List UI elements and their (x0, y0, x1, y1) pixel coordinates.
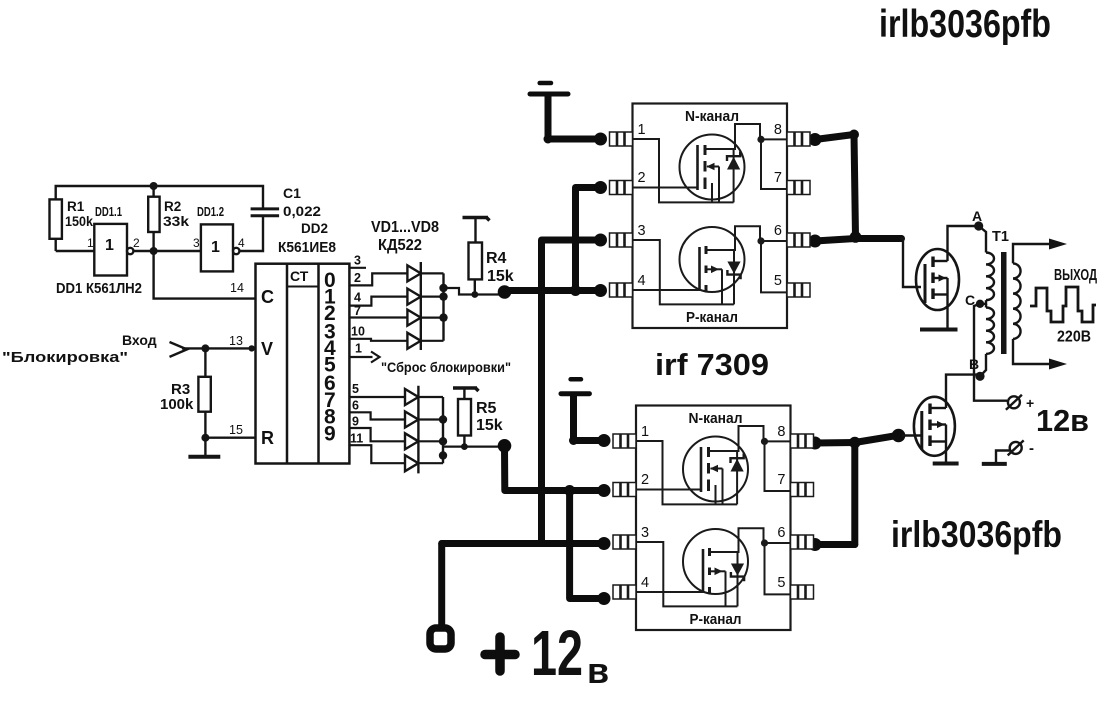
wire gnd1 to U1 pin1 (548, 97, 601, 140)
node R4 out (498, 285, 512, 299)
P-ch gate bar (698, 247, 701, 291)
label +12v handwritten plus (485, 637, 515, 671)
N-ch body diode (727, 149, 740, 202)
svg-text:15k: 15k (476, 417, 503, 434)
pin 6 stub out7 wire (349, 412, 405, 419)
svg-text:К561ИЕ8: К561ИЕ8 (278, 239, 336, 256)
svg-text:R: R (261, 428, 274, 448)
node U2 pin3 (598, 537, 611, 550)
pin 7 stub out3 wire (349, 316, 407, 318)
svg-text:5: 5 (352, 382, 359, 396)
wires cathodes to bus bottom (418, 397, 443, 463)
P-ch body diode (727, 250, 740, 304)
ground bar Q2 (933, 462, 959, 466)
cathode bar VD5-VD8 (417, 386, 419, 474)
svg-text:3: 3 (193, 236, 200, 250)
svg-text:"Блокировка": "Блокировка" (2, 350, 128, 366)
svg-text:DD1.2: DD1.2 (197, 204, 224, 219)
pad pin8 (787, 132, 810, 146)
svg-text:СТ: СТ (290, 268, 309, 284)
wire U1 pin6 to Q1 gate (815, 239, 902, 242)
terminal minus (1008, 440, 1024, 455)
svg-text:2: 2 (354, 271, 361, 285)
node drain corner top (849, 130, 859, 140)
node input blokirovka (201, 344, 209, 352)
svg-text:1: 1 (355, 342, 362, 356)
svg-text:15k: 15k (487, 268, 514, 285)
node Q2 gate (892, 429, 906, 443)
svg-text:КД522: КД522 (378, 237, 422, 254)
wire drain tie bottom (851, 443, 858, 545)
node B (975, 372, 984, 381)
pin 4 stub out2 wire (349, 297, 407, 306)
wire C tap to plus terminal (974, 304, 1007, 401)
output arrow bottom (1049, 359, 1067, 370)
svg-text:7: 7 (774, 170, 782, 186)
node U2 pin6 (809, 538, 822, 551)
ground bar top (530, 83, 568, 94)
svg-text:1: 1 (211, 239, 220, 256)
resistor R4 (469, 218, 483, 295)
node R5 stem (461, 443, 468, 450)
wire bus to R5 node (443, 446, 501, 448)
transformer core (1001, 252, 1007, 354)
svg-text:Т1: Т1 (992, 229, 1009, 245)
diode VD4 (407, 333, 420, 349)
node C tap (976, 300, 984, 308)
svg-text:33k: 33k (163, 214, 190, 229)
node R3 bottom (201, 434, 209, 442)
counter DD2 K561IE8 box (256, 264, 350, 464)
node V pin edge (249, 345, 255, 351)
svg-text:150k: 150k (65, 214, 93, 229)
op-amp inverter DD1.2 (201, 224, 240, 271)
pad pin4 (610, 283, 633, 297)
wire U2 pin8 drain (815, 439, 855, 447)
svg-text:"Сброс блокировки": "Сброс блокировки" (381, 359, 511, 375)
node gate tie bottom (564, 485, 575, 496)
svg-text:irlb3036pfb: irlb3036pfb (879, 3, 1051, 46)
wire U1 pin2 gate tie (576, 188, 601, 291)
diode VD8 (405, 455, 418, 471)
N-ch drain path to pins 8 7 (705, 124, 787, 149)
pad pin1 (610, 132, 633, 146)
pin 10 stub out4 wire (349, 339, 407, 341)
svg-text:B: B (969, 356, 979, 372)
node R4 stem (471, 291, 478, 298)
wire tie to U2 pin6 (815, 541, 855, 548)
svg-text:4: 4 (238, 236, 245, 250)
waveform meander (1030, 287, 1096, 322)
wire R4 node to U1 pin4 (505, 287, 601, 294)
node R5 out (498, 439, 512, 453)
node U2 pin1 (598, 434, 611, 447)
P-ch gate wire pin4 (633, 289, 700, 291)
pin 3 stub out0 (349, 267, 366, 269)
svg-text:8: 8 (774, 122, 782, 138)
node gnd2 corner (569, 436, 578, 445)
ground bar Q1 (920, 328, 958, 332)
node N drain (757, 136, 764, 143)
power rail bar R5 (453, 388, 479, 391)
svg-text:220В: 220В (1057, 329, 1091, 346)
node gate tie top (570, 285, 581, 296)
svg-text:13: 13 (229, 334, 243, 348)
node U1 pin1 (594, 133, 607, 146)
node U1 pin6 (809, 235, 822, 248)
node osc mid (150, 247, 158, 255)
node bus top b (439, 292, 447, 300)
wire Q2 gate thin (902, 434, 922, 436)
svg-text:С: С (965, 292, 975, 308)
svg-text:N-канал: N-канал (685, 108, 739, 125)
wire clock to DD2 pin14 (154, 251, 256, 299)
node U2 pin8 (809, 437, 822, 450)
pad pin7 (787, 181, 810, 195)
node A (974, 221, 983, 230)
pin 5 stub out6 wire (349, 396, 405, 398)
pin 9 stub out8 wire (349, 428, 405, 441)
N-ch source path pin1 (633, 139, 734, 202)
node U1 pin8 (809, 133, 822, 146)
wire bus to R4 node (444, 288, 502, 295)
N-ch channel segments (704, 145, 707, 189)
svg-text:11: 11 (350, 432, 363, 446)
transistor P-ch circle (680, 227, 745, 292)
resistor R2 (148, 186, 159, 251)
node bus bot a (439, 415, 447, 423)
node U2 pin2 (598, 484, 611, 497)
svg-text:C: C (261, 287, 274, 307)
svg-text:1: 1 (105, 237, 114, 254)
ground bar mid (561, 379, 589, 393)
node U1 pin3 (594, 234, 607, 247)
wire U1 pin8 drain (815, 135, 856, 238)
terminal plus (1006, 395, 1022, 410)
svg-text:DD1.1: DD1.1 (95, 204, 122, 219)
svg-text:Р-канал: Р-канал (686, 309, 738, 326)
svg-text:+: + (1026, 395, 1034, 411)
svg-text:-: - (1029, 440, 1034, 457)
svg-text:9: 9 (324, 423, 336, 446)
wire minus terminal to ground (996, 451, 1010, 463)
svg-text:14: 14 (230, 281, 244, 295)
op-amp inverter DD1.1 (94, 224, 133, 276)
svg-text:irlb3036pfb: irlb3036pfb (891, 514, 1062, 555)
svg-text:0,022: 0,022 (283, 203, 321, 219)
svg-text:9: 9 (352, 415, 359, 429)
pad pin5 (787, 283, 810, 297)
svg-text:в: в (587, 650, 609, 691)
ground bar minus (982, 462, 1007, 466)
transistor Q2 irlb3036 (914, 397, 955, 456)
bus VD5-VD8 (442, 397, 444, 463)
svg-text:ВЫХОД: ВЫХОД (1054, 267, 1097, 284)
node U1 pin4 (594, 284, 607, 297)
node gnd1 corner (544, 135, 553, 144)
wire R pin15 (205, 437, 255, 439)
node U1 pin2 (594, 181, 607, 194)
svg-text:1: 1 (87, 236, 94, 250)
wire DD1.2 out to C1 (239, 216, 263, 251)
wire Q1 drain to node A (948, 226, 979, 261)
svg-text:4: 4 (638, 273, 646, 289)
resistor R5 (458, 388, 471, 447)
svg-text:2: 2 (638, 170, 646, 186)
node bus top a (439, 284, 447, 292)
pad pin3 (610, 233, 633, 247)
P-ch source path pin3 (633, 240, 734, 304)
diode VD3 (407, 310, 420, 326)
svg-text:R4: R4 (486, 250, 507, 267)
wires cathodes to bus top (421, 273, 444, 340)
bus VD1-VD4 (442, 273, 444, 340)
output arrow top (1049, 239, 1067, 250)
wire tie to Q2 gate (855, 436, 897, 443)
svg-text:DD1 К561ЛН2: DD1 К561ЛН2 (56, 280, 142, 297)
transformer T1 primary upper (979, 226, 994, 300)
svg-text:4: 4 (354, 291, 361, 305)
transistor N-ch circle (680, 135, 745, 200)
svg-text:A: A (972, 208, 982, 224)
pin 2 stub out1 wire (349, 273, 407, 285)
diode VD5 (405, 389, 418, 405)
N-ch gate bar (696, 145, 699, 190)
svg-text:10: 10 (351, 325, 365, 339)
wire Q1 gate thin (900, 239, 921, 288)
node bus bot b (439, 437, 447, 445)
N-ch body arrow (707, 163, 720, 203)
svg-text:6: 6 (774, 223, 782, 239)
pin 11 stub out9 wire (349, 445, 405, 463)
svg-text:2: 2 (133, 236, 140, 250)
svg-text:C1: C1 (283, 185, 301, 201)
svg-text:VD1...VD8: VD1...VD8 (371, 219, 439, 236)
P-ch channel segments (705, 246, 708, 292)
svg-text:12в: 12в (1036, 403, 1089, 438)
diode VD7 (405, 433, 418, 449)
svg-text:3: 3 (638, 223, 646, 239)
node bus bot c (439, 451, 447, 459)
terminal +12v (430, 628, 451, 649)
IC U2 irf7309 bottom package (613, 406, 814, 631)
node bus top c (439, 313, 447, 321)
svg-text:Вход: Вход (122, 332, 157, 348)
svg-text:6: 6 (352, 399, 359, 413)
node drain tie bottom (849, 437, 861, 449)
node U2 pin4 (598, 592, 611, 605)
node P drain (757, 237, 764, 244)
diode VD2 (407, 289, 420, 305)
svg-text:1: 1 (638, 122, 646, 138)
cathode bar VD1-VD4 (420, 262, 422, 350)
svg-text:12: 12 (531, 617, 583, 689)
svg-text:irf 7309: irf 7309 (655, 347, 769, 382)
wire R5 node to U2 pin2 (505, 446, 605, 491)
svg-text:7: 7 (354, 304, 361, 318)
wire Q2 source to ground (945, 442, 947, 462)
svg-text:R2: R2 (164, 199, 181, 214)
wire R1 to DD1.1 input (56, 250, 95, 252)
svg-text:V: V (261, 339, 273, 359)
pin 1 stub out5 arrow sbros (349, 352, 379, 363)
diode VD1 (407, 265, 420, 281)
node drain tie top (850, 231, 862, 243)
svg-text:3: 3 (354, 254, 361, 268)
svg-text:R5: R5 (476, 400, 497, 417)
wire gnd2 to U2 pin1 (574, 396, 605, 441)
wire DD1.1 out to node (133, 250, 201, 252)
wire top rail (56, 186, 263, 209)
capacitor C1 (251, 209, 280, 216)
wire +12 terminal riser (438, 544, 445, 629)
svg-text:15: 15 (229, 423, 243, 437)
N-ch gate wire pin2 (633, 187, 698, 189)
svg-text:DD2: DD2 (301, 220, 328, 236)
wire +12 feed horizontal (442, 540, 604, 547)
resistor R1 (50, 199, 62, 251)
input arrow chevron (170, 342, 188, 357)
pad pin6 (787, 233, 810, 247)
transformer T1 primary lower (980, 300, 994, 376)
P-ch body arrow (706, 266, 722, 305)
resistor R3 (198, 348, 210, 437)
IC body (633, 104, 788, 329)
transistor Q1 irlb3036 (916, 249, 959, 310)
pad pin2 (610, 181, 633, 195)
svg-text:R1: R1 (67, 199, 85, 214)
wire Q2 drain to node B (946, 375, 980, 408)
transformer T1 secondary (1013, 244, 1051, 364)
wire gate tie bottom to U2 pin4 (570, 491, 604, 599)
wire input V pin13 (182, 347, 256, 349)
svg-text:100k: 100k (160, 396, 194, 413)
node rail junction (150, 182, 158, 190)
wire to ground (204, 438, 206, 455)
svg-text:5: 5 (774, 273, 782, 289)
power rail bar R4 (463, 218, 490, 221)
diode VD6 (405, 412, 418, 428)
ground bar R3 (188, 455, 220, 459)
P-ch drain path to pins 6 5 (706, 226, 787, 250)
wire U1 pin3 to +12 rail (542, 240, 601, 544)
wire Q1 source to ground (946, 295, 948, 328)
